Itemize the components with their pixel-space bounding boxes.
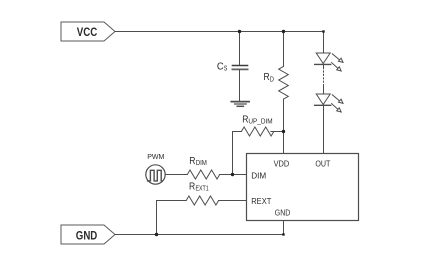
svg-text:DIM: DIM xyxy=(196,158,207,167)
GND tag xyxy=(61,225,115,244)
wire Cs branch top xyxy=(239,32,241,66)
capacitor CS xyxy=(232,66,247,70)
wire VCC rail xyxy=(115,31,324,33)
LED D1 xyxy=(315,53,343,71)
svg-text:REXT: REXT xyxy=(251,196,271,206)
wire RD bottom to VDD pin xyxy=(283,99,285,153)
svg-text:UP_DIM: UP_DIM xyxy=(248,116,272,125)
svg-text:S: S xyxy=(224,64,228,73)
wire dotted (more LEDs) xyxy=(323,68,325,87)
wire RD branch top xyxy=(283,32,285,67)
PWM source xyxy=(146,165,165,184)
wire LED bottom to OUT pin xyxy=(323,105,325,153)
LED D2 xyxy=(315,94,343,112)
wire LED branch top xyxy=(323,32,325,54)
wire PWM to RDIM xyxy=(165,174,187,176)
resistor RUP_DIM xyxy=(241,127,273,136)
svg-text:EXT1: EXT1 xyxy=(196,183,209,192)
ground xyxy=(231,102,249,107)
node GND corner xyxy=(282,233,284,235)
wire RUP_DIM left branch xyxy=(233,132,242,175)
node RD/VCC xyxy=(282,30,285,33)
svg-text:GND: GND xyxy=(275,207,291,217)
VCC tag xyxy=(61,22,115,41)
resistor REXT1 xyxy=(186,196,218,205)
wire Cs to ground xyxy=(239,70,241,102)
node REXT1/GND xyxy=(155,233,158,236)
svg-text:OUT: OUT xyxy=(315,158,330,168)
node Cs/VCC xyxy=(238,30,241,33)
wire LED link solid xyxy=(323,64,325,67)
svg-text:VDD: VDD xyxy=(274,158,290,168)
wire RUP_DIM right lead xyxy=(271,131,284,133)
resistor RDIM xyxy=(187,170,219,179)
svg-text:DIM: DIM xyxy=(251,171,266,181)
node DIM xyxy=(231,173,234,176)
svg-text:R: R xyxy=(189,156,195,167)
node RUP_DIM/VDD xyxy=(282,130,285,133)
wire to LED D2 xyxy=(323,87,325,95)
svg-text:VCC: VCC xyxy=(77,25,98,39)
wire REXT1 left lead xyxy=(157,201,187,235)
resistor RD xyxy=(279,66,289,99)
node junction dots xyxy=(155,30,325,236)
wire REXT1 to pin xyxy=(219,200,247,202)
svg-text:PWM: PWM xyxy=(147,152,164,161)
svg-text:D: D xyxy=(270,75,274,84)
node LED corner xyxy=(322,30,324,32)
IC U1 xyxy=(247,154,359,221)
svg-text:R: R xyxy=(189,182,195,193)
svg-text:GND: GND xyxy=(76,228,98,242)
wire DIM node to pin xyxy=(220,174,247,176)
wire GND rail xyxy=(115,221,284,235)
